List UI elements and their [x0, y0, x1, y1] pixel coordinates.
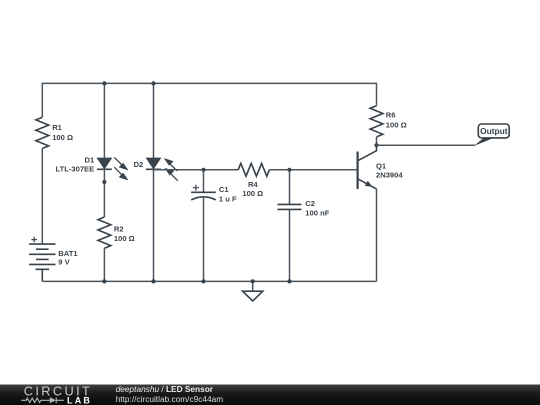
footer url text: [116, 394, 224, 404]
node dot bottom rail at D2: [151, 279, 155, 283]
transistor Q1 emitter arrow: [365, 181, 373, 187]
resistor R2: [98, 217, 111, 248]
photodiode D2: [146, 158, 161, 169]
node dot ground: [251, 279, 255, 283]
svg-text:LTL-307EE: LTL-307EE: [56, 164, 95, 173]
logo wire with resistor and diode: [21, 398, 64, 404]
resistor R6: [370, 106, 383, 137]
svg-text:Q1: Q1: [376, 161, 387, 170]
footer title text: [116, 384, 214, 394]
label R6 value: [386, 111, 407, 130]
svg-text:D2: D2: [134, 160, 144, 169]
label C1 value: [219, 185, 237, 203]
label D2: [134, 160, 144, 169]
label R2 value: [114, 225, 135, 244]
wire D2 branch top: [153, 83, 155, 158]
node dot collector: [374, 143, 378, 147]
wire R4 to Q1 base: [269, 169, 357, 171]
svg-text:http://circuitlab.com/c9c44am: http://circuitlab.com/c9c44am: [116, 394, 224, 404]
svg-text:Output: Output: [480, 126, 508, 136]
node dot below D1: [102, 180, 106, 184]
svg-text:100 nF: 100 nF: [305, 208, 329, 217]
svg-text:C1: C1: [219, 185, 229, 194]
svg-text:R4: R4: [248, 180, 258, 189]
LED D1 emission arrows: [114, 157, 127, 179]
wire R6 branch top: [376, 83, 378, 106]
svg-text:C2: C2: [305, 199, 315, 208]
output flag box: [478, 124, 509, 138]
output flag tail: [474, 138, 495, 146]
battery plus sign: [31, 237, 37, 243]
capacitor C2: [278, 204, 302, 209]
label R4 value: [242, 180, 263, 198]
wire R6 to collector node: [376, 137, 378, 145]
battery BAT1: [29, 244, 55, 281]
svg-text:100 Ω: 100 Ω: [386, 121, 407, 130]
footer bar: [0, 385, 540, 405]
wire C1 to bottom rail: [203, 198, 205, 282]
resistor R1: [36, 117, 49, 148]
svg-text:100 Ω: 100 Ω: [52, 133, 73, 142]
svg-text:2N3904: 2N3904: [376, 170, 403, 179]
resistor R4: [238, 163, 269, 176]
svg-text:R1: R1: [52, 123, 62, 132]
svg-text:deeptanshu / LED Sensor: deeptanshu / LED Sensor: [116, 384, 214, 394]
wire D1 branch top: [103, 83, 105, 158]
label C2 value: [305, 199, 329, 218]
wire output: [377, 144, 476, 146]
wire signal D2 to R4: [154, 169, 239, 171]
ground: [243, 281, 263, 301]
wire emitter to bottom rail: [376, 189, 378, 282]
svg-text:1 u F: 1 u F: [219, 195, 237, 204]
logo CIRCUIT text: [24, 383, 92, 398]
label BAT1 value: [58, 249, 78, 266]
svg-text:D1: D1: [84, 155, 94, 164]
wire D1 to R2: [103, 169, 105, 217]
wire C2 top: [289, 170, 291, 205]
label D1 LTL-307EE: [56, 155, 95, 173]
svg-text:100 Ω: 100 Ω: [114, 234, 135, 243]
node dot bottom rail at R2: [102, 279, 106, 283]
wire bottom rail: [42, 280, 376, 282]
node dot top rail at D1: [102, 81, 106, 85]
wire left rail upper: [41, 83, 43, 118]
wire C2 to bottom rail: [289, 209, 291, 281]
wire left rail lower: [41, 148, 43, 244]
wire C1 top: [203, 170, 205, 193]
transistor Q1: [358, 145, 377, 189]
svg-text:LAB: LAB: [67, 395, 92, 405]
node dot bottom rail at C1: [201, 279, 205, 283]
wire R2 to bottom rail: [103, 248, 105, 281]
photodiode D2 incoming light arrows: [165, 159, 177, 181]
capacitor C1 plus sign: [193, 185, 199, 191]
wire top rail: [42, 82, 376, 84]
capacitor C1 polarized: [191, 192, 216, 200]
node dot bottom rail at C2: [287, 279, 291, 283]
svg-text:9 V: 9 V: [58, 258, 70, 267]
svg-text:R6: R6: [386, 111, 396, 120]
svg-text:R2: R2: [114, 225, 124, 234]
svg-text:100 Ω: 100 Ω: [242, 189, 263, 198]
LED D1: [97, 158, 112, 169]
logo LAB text: [67, 395, 92, 405]
label Q1 2N3904: [376, 161, 403, 179]
label Output: [480, 126, 508, 136]
wire D2 to bottom rail: [153, 169, 155, 281]
node dot top rail at D2: [151, 81, 155, 85]
node dot C1 top: [201, 168, 205, 172]
label R1 value: [52, 123, 73, 142]
node dot C2 top: [287, 168, 291, 172]
logo diode triangle: [50, 397, 56, 403]
